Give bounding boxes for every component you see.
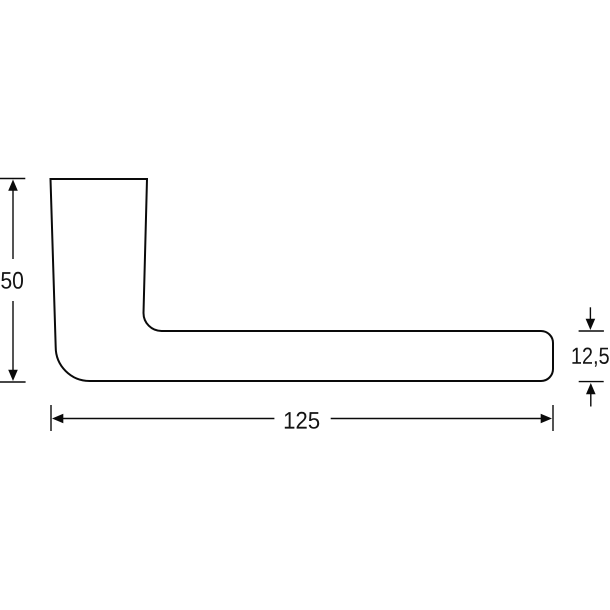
label 125 [285,412,319,429]
dimension line 125 left segment [62,418,274,420]
arrowhead 125 right [541,414,552,424]
extension line bottom of 50 dimension [0,381,26,383]
arrow stem 12,5 upper [589,307,591,320]
gauge line top of 12,5 dimension [579,330,604,332]
dimension line 50 lower segment [12,301,14,371]
extension line right of 125 dimension [552,405,554,431]
dimension line 125 right segment [331,418,542,420]
label 50 [1,272,23,289]
dimension line 50 upper segment [12,189,14,259]
gauge line bottom of 12,5 dimension [579,381,604,383]
door handle outline [51,179,554,381]
extension line left of 125 dimension [50,405,52,431]
arrowhead 125 left [52,414,63,424]
arrowhead 12,5 lower pointing up [586,383,596,394]
arrow stem 12,5 lower [590,394,592,407]
arrowhead 50 top [8,180,18,191]
extension line top of 50 dimension [0,178,25,180]
arrowhead 12,5 upper pointing down [586,319,596,330]
arrowhead 50 bottom [8,370,18,381]
label 12,5 [572,348,608,367]
